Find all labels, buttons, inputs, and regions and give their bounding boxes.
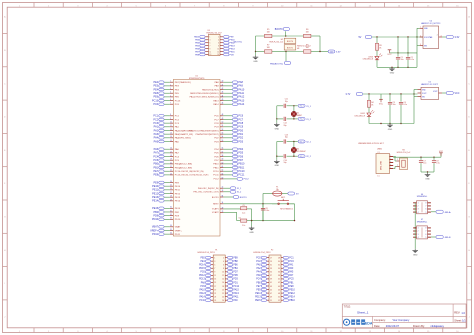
svg-text:VCC: VCC — [379, 104, 384, 106]
MCU right pin PC10 with wire and net flag — [213, 170, 245, 173]
svg-text:PC0: PC0 — [256, 257, 261, 259]
MCU left pin PA7 with wire and net flag — [154, 151, 180, 154]
svg-text:2.2u: 2.2u — [242, 225, 245, 227]
svg-text:PE2(TRACECK): PE2(TRACECK) — [175, 81, 191, 84]
svg-text:PB2: PB2 — [153, 211, 158, 214]
svg-text:11: 11 — [210, 51, 212, 53]
ground ICs — [412, 249, 418, 256]
svg-text:PE14: PE14 — [152, 200, 159, 203]
crystal1 left vertical — [276, 106, 277, 120]
MCU right pin PC9 with wire and net flag — [214, 125, 243, 128]
svg-text:25: 25 — [170, 185, 172, 187]
connector P1 pin row 10 — [199, 288, 239, 291]
svg-text:10u: 10u — [393, 104, 396, 106]
connector P1 pin row 7 — [199, 278, 238, 281]
svg-text:PE11: PE11 — [255, 293, 261, 295]
svg-text:C5: C5 — [243, 205, 245, 207]
net label (BOOT1) beside U3 — [234, 41, 243, 43]
MCU right pin PA8 with wire and net flag — [215, 81, 244, 84]
jumper H3 ref label — [297, 45, 311, 49]
MCU left pin PE15 with wire and net flag — [152, 207, 181, 210]
svg-text:PC15-OSC32_OUT(OSC32_OUT): PC15-OSC32_OUT(OSC32_OUT) — [175, 175, 209, 177]
svg-text:51: 51 — [222, 125, 224, 127]
svg-text:2: 2 — [418, 231, 419, 233]
MCU right pin PC11 with wire and net flag — [213, 173, 245, 176]
svg-text:PC3: PC3 — [153, 122, 158, 125]
svg-text:HDR-M-2.54_2X13: HDR-M-2.54_2X13 — [198, 252, 216, 254]
connector P1 ref label — [198, 249, 218, 254]
svg-text:X1_2: X1_2 — [300, 119, 304, 121]
resistor R8 — [304, 45, 311, 54]
svg-text:PC13: PC13 — [175, 100, 181, 102]
MCU right pin PD2 with wire and net flag — [214, 136, 243, 139]
svg-text:24: 24 — [170, 181, 172, 183]
svg-text:PA14: PA14 — [199, 295, 205, 298]
svg-text:PA4: PA4 — [154, 137, 159, 140]
jumper H3 body — [284, 45, 296, 50]
svg-text:23: 23 — [214, 296, 216, 298]
svg-text:BOOT1: BOOT1 — [287, 47, 293, 49]
svg-text:PD3: PD3 — [233, 279, 238, 281]
MCU left pin PE4 with wire and net flag — [153, 88, 179, 91]
svg-text:PE13: PE13 — [152, 196, 159, 199]
svg-text:PE0: PE0 — [201, 257, 206, 259]
svg-text:PC2: PC2 — [256, 261, 261, 263]
title block Company row — [374, 318, 410, 322]
svg-text:GND: GND — [249, 232, 254, 234]
svg-text:PA13: PA13 — [238, 99, 244, 102]
svg-text:PD3: PD3 — [238, 140, 243, 143]
svg-text:PD5: PD5 — [238, 152, 243, 155]
svg-text:VCC: VCC — [387, 54, 392, 56]
connector P1 pin row 5 — [200, 271, 238, 274]
svg-text:10p: 10p — [284, 162, 287, 164]
svg-text:Your Company: Your Company — [392, 318, 410, 322]
svg-text:PD11: PD11 — [175, 234, 181, 236]
svg-text:33: 33 — [170, 218, 172, 220]
connector P1 pin row 6 — [199, 274, 238, 277]
svg-text:PE9: PE9 — [153, 181, 158, 184]
MCU left pin VREF+ with wire and net flag — [150, 229, 182, 232]
svg-text:TITLE:: TITLE: — [344, 306, 352, 309]
svg-text:PA2: PA2 — [154, 129, 159, 132]
svg-text:3: 3 — [418, 209, 419, 211]
svg-text:21: 21 — [214, 293, 216, 295]
svg-text:PC13: PC13 — [152, 99, 159, 102]
connector P1 pin row 12 — [199, 295, 239, 298]
connector P2 ref label — [253, 249, 273, 254]
svg-text:16: 16 — [222, 282, 224, 284]
svg-text:VBAT: VBAT — [152, 226, 159, 229]
svg-text:PE4: PE4 — [153, 88, 158, 91]
svg-text:50: 50 — [222, 122, 224, 124]
svg-text:35: 35 — [270, 272, 272, 274]
svg-text:PB10: PB10 — [289, 300, 295, 302]
MCU left pin PE13 with wire and net flag — [152, 196, 181, 199]
svg-text:PE3: PE3 — [153, 85, 158, 88]
svg-text:4: 4 — [418, 212, 419, 214]
title block Sheet label — [454, 319, 466, 323]
svg-text:AMS1117-3.3 COPY: AMS1117-3.3 COPY — [421, 83, 439, 86]
svg-text:13: 13 — [210, 54, 212, 56]
connector P2 pin row 7 — [256, 278, 294, 281]
crystal1 bottom row — [277, 117, 298, 121]
wire VBUS to VCC — [393, 156, 441, 159]
MCU right pin PD7 with wire and net flag — [214, 159, 243, 162]
svg-text:1: 1 — [418, 203, 419, 205]
MCU left pin PE8 with wire and net flag — [153, 173, 208, 176]
svg-text:52: 52 — [278, 300, 280, 302]
svg-text:47: 47 — [270, 293, 272, 295]
connector P1 body — [213, 255, 225, 302]
svg-text:34: 34 — [170, 225, 172, 227]
title block grid — [342, 304, 466, 328]
crystal2 left vertical — [276, 142, 277, 157]
connector P2 pin row 3 — [257, 263, 295, 266]
svg-text:VBAT: VBAT — [175, 226, 181, 229]
svg-text:9: 9 — [214, 272, 215, 274]
crystal2 top row — [277, 139, 298, 143]
svg-text:16: 16 — [170, 148, 172, 150]
net flag fuse output — [282, 192, 299, 196]
svg-text:PC0: PC0 — [153, 103, 158, 106]
crystal2 label C14 — [284, 160, 287, 164]
svg-text:PC1: PC1 — [289, 257, 294, 259]
svg-text:485-A: 485-A — [445, 211, 451, 214]
svg-text:PD13: PD13 — [199, 279, 205, 281]
svg-text:PE11: PE11 — [152, 189, 158, 192]
wire LED3 to gnd rail — [376, 60, 378, 67]
svg-text:PC14-OSC32_IN(OSC32_IN): PC14-OSC32_IN(OSC32_IN) — [175, 171, 204, 173]
svg-text:40: 40 — [222, 81, 224, 83]
svg-text:14: 14 — [217, 54, 219, 56]
IC U6 (SP3485) — [413, 194, 431, 214]
key button S1 — [272, 197, 295, 211]
svg-text:27: 27 — [170, 192, 172, 194]
svg-text:X1_2: X1_2 — [237, 192, 241, 194]
svg-text:EDA: EDA — [365, 321, 373, 325]
svg-text:20: 20 — [222, 289, 224, 291]
wire LED1 to gnd rail — [368, 117, 370, 124]
svg-text:26: 26 — [170, 188, 172, 190]
svg-text:25: 25 — [214, 300, 216, 302]
svg-text:KEY-TSM6X3.6: KEY-TSM6X3.6 — [280, 209, 293, 211]
svg-text:PD4: PD4 — [238, 148, 243, 151]
net flag X2_2 — [298, 155, 312, 159]
svg-text:X1_1: X1_1 — [237, 188, 241, 190]
wire boot-top right seg — [311, 36, 320, 52]
U4 pins — [420, 27, 442, 46]
svg-text:PD11: PD11 — [152, 233, 159, 236]
svg-text:PC9: PC9 — [238, 126, 243, 129]
MCU left pin PA6 with wire and net flag — [154, 148, 180, 151]
svg-text:PB9: PB9 — [233, 257, 238, 259]
svg-text:PD5: PD5 — [233, 275, 238, 277]
svg-text:33: 33 — [270, 268, 272, 270]
svg-text:39: 39 — [270, 279, 272, 281]
svg-text:56: 56 — [222, 148, 224, 150]
svg-text:12: 12 — [222, 275, 224, 277]
svg-text:PD2: PD2 — [238, 137, 243, 140]
U5 pin names — [422, 89, 438, 98]
svg-text:3.3V: 3.3V — [455, 37, 460, 39]
svg-text:32: 32 — [170, 214, 172, 216]
wire R4 branch — [368, 94, 370, 100]
svg-text:Company:: Company: — [374, 318, 386, 322]
svg-text:20p: 20p — [284, 125, 287, 127]
svg-text:PD15: PD15 — [199, 268, 205, 270]
svg-text:VREF+: VREF+ — [150, 229, 159, 232]
connector P2 pin row 1 — [256, 256, 294, 259]
svg-text:29: 29 — [170, 199, 172, 201]
svg-text:PA3(USART2_RX): PA3(USART2_RX) — [175, 133, 194, 136]
MCU right pin PD6 with wire and net flag — [214, 155, 243, 158]
svg-text:X1_1: X1_1 — [300, 106, 304, 108]
svg-text:BOOT0: BOOT0 — [240, 197, 248, 199]
svg-text:GND: GND — [275, 165, 280, 167]
svg-text:PH0-OSC_IN(OSC_IN): PH0-OSC_IN(OSC_IN) — [198, 188, 219, 190]
MCU right pin PA13 with wire and net flag — [213, 99, 244, 102]
USB1 ref label — [377, 149, 382, 151]
wire usb gnd rail — [421, 171, 434, 172]
title block REV label — [454, 311, 465, 315]
crystal1 label C11 — [285, 99, 288, 103]
svg-text:45: 45 — [270, 289, 272, 291]
svg-text:PE14: PE14 — [289, 296, 295, 298]
USB section caption — [358, 143, 384, 145]
MCU left pin VBAT with wire and net flag — [152, 225, 181, 228]
U4 ref labels — [421, 20, 440, 25]
svg-text:PB10: PB10 — [238, 163, 245, 166]
svg-text:NRST: NRST — [213, 204, 219, 206]
bottom rail reg2 — [369, 123, 414, 125]
svg-text:USB1: USB1 — [377, 149, 382, 151]
svg-text:49: 49 — [222, 207, 224, 209]
jumper H2 body — [284, 38, 296, 43]
svg-text:34: 34 — [278, 268, 280, 270]
svg-text:LED-0805_B: LED-0805_B — [363, 59, 374, 61]
MCU left pin PE10 with wire and net flag — [152, 185, 181, 188]
svg-text:PE15: PE15 — [255, 300, 261, 302]
MCU left pin PB2 with wire and net flag — [153, 210, 179, 213]
connector U3 pin row 7/8 with net flags — [195, 44, 235, 47]
svg-text:46: 46 — [222, 103, 224, 105]
svg-text:LED-0805_R: LED-0805_R — [355, 115, 366, 117]
svg-text:22: 22 — [222, 293, 224, 295]
svg-text:43: 43 — [270, 286, 272, 288]
svg-text:PE7: PE7 — [256, 286, 261, 288]
ground usb — [425, 172, 431, 180]
svg-text:PD7: PD7 — [238, 159, 243, 162]
junction dots 3.7V rail — [368, 93, 414, 94]
capacitor C5 (VCAP1) — [241, 205, 252, 221]
svg-text:PE8: PE8 — [153, 174, 158, 177]
svg-text:60: 60 — [222, 162, 224, 164]
connector P1 pin row 13 — [199, 299, 238, 302]
svg-text:PB0(ADC12_IN8): PB0(ADC12_IN8) — [175, 163, 193, 166]
svg-text:PB11: PB11 — [238, 166, 244, 169]
svg-text:PA14/JTCK-SWCLK(SWCLK): PA14/JTCK-SWCLK(SWCLK) — [190, 96, 219, 99]
svg-text:PC4: PC4 — [153, 155, 158, 158]
svg-text:0.1u: 0.1u — [404, 104, 408, 106]
svg-text:VOUT: VOUT — [433, 91, 437, 93]
connector P2 pin row 4 — [257, 267, 295, 270]
svg-text:PE7: PE7 — [153, 170, 158, 173]
svg-text:22: 22 — [170, 170, 172, 172]
svg-text:PB13: PB13 — [230, 45, 236, 47]
resistor R5 — [265, 29, 272, 38]
fuse F1 — [273, 186, 282, 196]
svg-text:42: 42 — [278, 282, 280, 284]
svg-text:REV:: REV: — [454, 311, 460, 315]
svg-text:KEY1: KEY1 — [281, 197, 285, 199]
svg-text:45: 45 — [222, 99, 224, 101]
U5 ref labels — [421, 82, 439, 87]
wire reg1 left pins — [417, 28, 420, 67]
svg-text:BOOT0: BOOT0 — [212, 197, 220, 199]
MCU left pin PB1 with wire and net flag — [153, 166, 192, 169]
svg-text:GND: GND — [413, 254, 418, 256]
svg-text:3: 3 — [418, 234, 419, 236]
svg-text:5: 5 — [214, 264, 215, 266]
crystal X2 — [291, 142, 305, 157]
MCU left pin PE14 with wire and net flag — [152, 199, 181, 202]
svg-text:0.1u: 0.1u — [411, 59, 415, 61]
svg-text:8MHZ: 8MHZ — [297, 115, 302, 117]
svg-text:PC5: PC5 — [153, 159, 158, 162]
wire vcc stub reg2 — [380, 94, 382, 99]
svg-text:PA12: PA12 — [238, 96, 244, 99]
svg-text:30: 30 — [170, 207, 172, 209]
svg-text:X2_2: X2_2 — [300, 156, 304, 158]
crystal2 label C13 — [285, 134, 288, 138]
svg-text:1/1: 1/1 — [462, 319, 466, 323]
capacitor C9 — [432, 157, 440, 172]
IC U7 (SP3485) — [413, 219, 431, 239]
svg-text:PB1: PB1 — [153, 166, 158, 169]
svg-text:PB11: PB11 — [213, 167, 219, 169]
svg-text:12: 12 — [170, 129, 172, 131]
MCU left pin PC4 with wire and net flag — [153, 155, 179, 158]
connector P1 pin row 1 — [201, 256, 239, 259]
junction dot reset bottom — [294, 220, 295, 221]
svg-text:PC2: PC2 — [153, 118, 158, 121]
MCU right pin PD4 with wire and net flag — [214, 148, 243, 151]
power flag VCC reg1 — [387, 50, 398, 56]
svg-text:3: 3 — [214, 261, 215, 263]
svg-text:PD10: PD10 — [175, 219, 181, 221]
svg-text:(BOOT1): (BOOT1) — [234, 41, 243, 43]
svg-text:17: 17 — [214, 286, 216, 288]
MCU right pin PC12 with net flag — [214, 177, 250, 180]
svg-text:PE10: PE10 — [152, 185, 159, 188]
EasyEDA logo — [344, 319, 373, 325]
svg-text:48: 48 — [222, 114, 224, 116]
net flag U6 output — [431, 210, 451, 214]
connector U3 pin row 11/12 with net flags — [195, 50, 235, 53]
svg-text:VCC: VCC — [439, 151, 444, 153]
junction dots usb rail — [420, 157, 434, 158]
svg-text:63: 63 — [222, 173, 224, 175]
svg-text:2: 2 — [418, 206, 419, 208]
wire R4 to LED — [368, 107, 370, 113]
USB1 pins — [390, 155, 394, 169]
svg-text:28: 28 — [170, 196, 172, 198]
wire vcap gnd rail — [251, 220, 295, 221]
capacitor C7 — [419, 157, 426, 172]
svg-text:HDR-F-2.54_1x2: HDR-F-2.54_1x2 — [397, 152, 411, 154]
svg-text:36: 36 — [170, 233, 172, 235]
svg-text:PD1: PD1 — [233, 282, 238, 284]
title block TITLE label — [344, 306, 352, 309]
svg-text:J: J — [469, 316, 470, 318]
USB connector USB1 body — [376, 152, 390, 178]
svg-text:PB4: PB4 — [233, 268, 238, 270]
svg-text:PA10: PA10 — [199, 288, 205, 291]
svg-text:AMS1117-3.3_SOT223: AMS1117-3.3_SOT223 — [421, 22, 440, 25]
MCU right pin PC7 with wire and net flag — [214, 118, 243, 121]
MCU right pin PA14 with wire and net flag — [213, 103, 244, 106]
svg-text:PA12: PA12 — [199, 292, 205, 295]
connector U3 pin row 3/4 with net flags — [195, 39, 235, 42]
svg-text:7: 7 — [214, 268, 215, 270]
svg-text:PB1(ADC12_IN9): PB1(ADC12_IN9) — [175, 166, 193, 169]
svg-text:PB0: PB0 — [153, 163, 158, 166]
net flag U7 output — [431, 235, 451, 239]
svg-text:PC6: PC6 — [238, 115, 243, 118]
svg-text:PA15: PA15 — [194, 36, 200, 39]
svg-text:P2: P2 — [271, 249, 273, 251]
svg-text:PE12: PE12 — [289, 293, 295, 295]
svg-text:44: 44 — [222, 95, 224, 97]
MCU left pin PE11 with wire and net flag — [152, 188, 180, 191]
svg-text:PH1-OSC_OUT(OSC_OUT): PH1-OSC_OUT(OSC_OUT) — [193, 192, 219, 194]
svg-text:31: 31 — [170, 210, 172, 212]
svg-text:28: 28 — [278, 257, 280, 259]
svg-text:PB14: PB14 — [230, 48, 236, 50]
wire reg2 left pins — [414, 90, 418, 124]
svg-text:49: 49 — [270, 296, 272, 298]
svg-text:32: 32 — [278, 264, 280, 266]
title block sheet name — [357, 311, 369, 315]
svg-text:PA11: PA11 — [238, 92, 244, 95]
MCU U1 body — [173, 80, 220, 237]
svg-text:14: 14 — [170, 136, 172, 138]
wire 3.7V rail — [363, 93, 418, 95]
ground boot circuit — [253, 52, 259, 63]
svg-text:8: 8 — [223, 268, 224, 270]
wire boot-bottom rail — [256, 51, 329, 53]
wire key left link — [271, 203, 273, 205]
svg-text:15: 15 — [214, 282, 216, 284]
connector P2 pin row 9 — [256, 285, 294, 288]
MCU pin BOOT0 with net flag — [212, 195, 248, 198]
svg-text:48: 48 — [278, 293, 280, 295]
svg-text:15: 15 — [170, 140, 172, 142]
svg-text:50: 50 — [278, 296, 280, 298]
net flag VCC output reg2 — [442, 91, 460, 95]
bottom rail reg1 — [377, 66, 417, 68]
svg-text:13: 13 — [222, 190, 224, 192]
svg-text:10u: 10u — [423, 163, 426, 165]
wire boot-left vertical — [255, 36, 257, 52]
svg-text:41: 41 — [270, 282, 272, 284]
MCU pin VCAP2 wire — [212, 211, 241, 221]
svg-text:PB4/NJTRST(NJTRST): PB4/NJTRST(NJTRST) — [196, 134, 219, 136]
ground vcap/reset — [249, 221, 255, 234]
svg-text:PA14: PA14 — [213, 103, 219, 106]
svg-text:PA1: PA1 — [154, 126, 159, 129]
